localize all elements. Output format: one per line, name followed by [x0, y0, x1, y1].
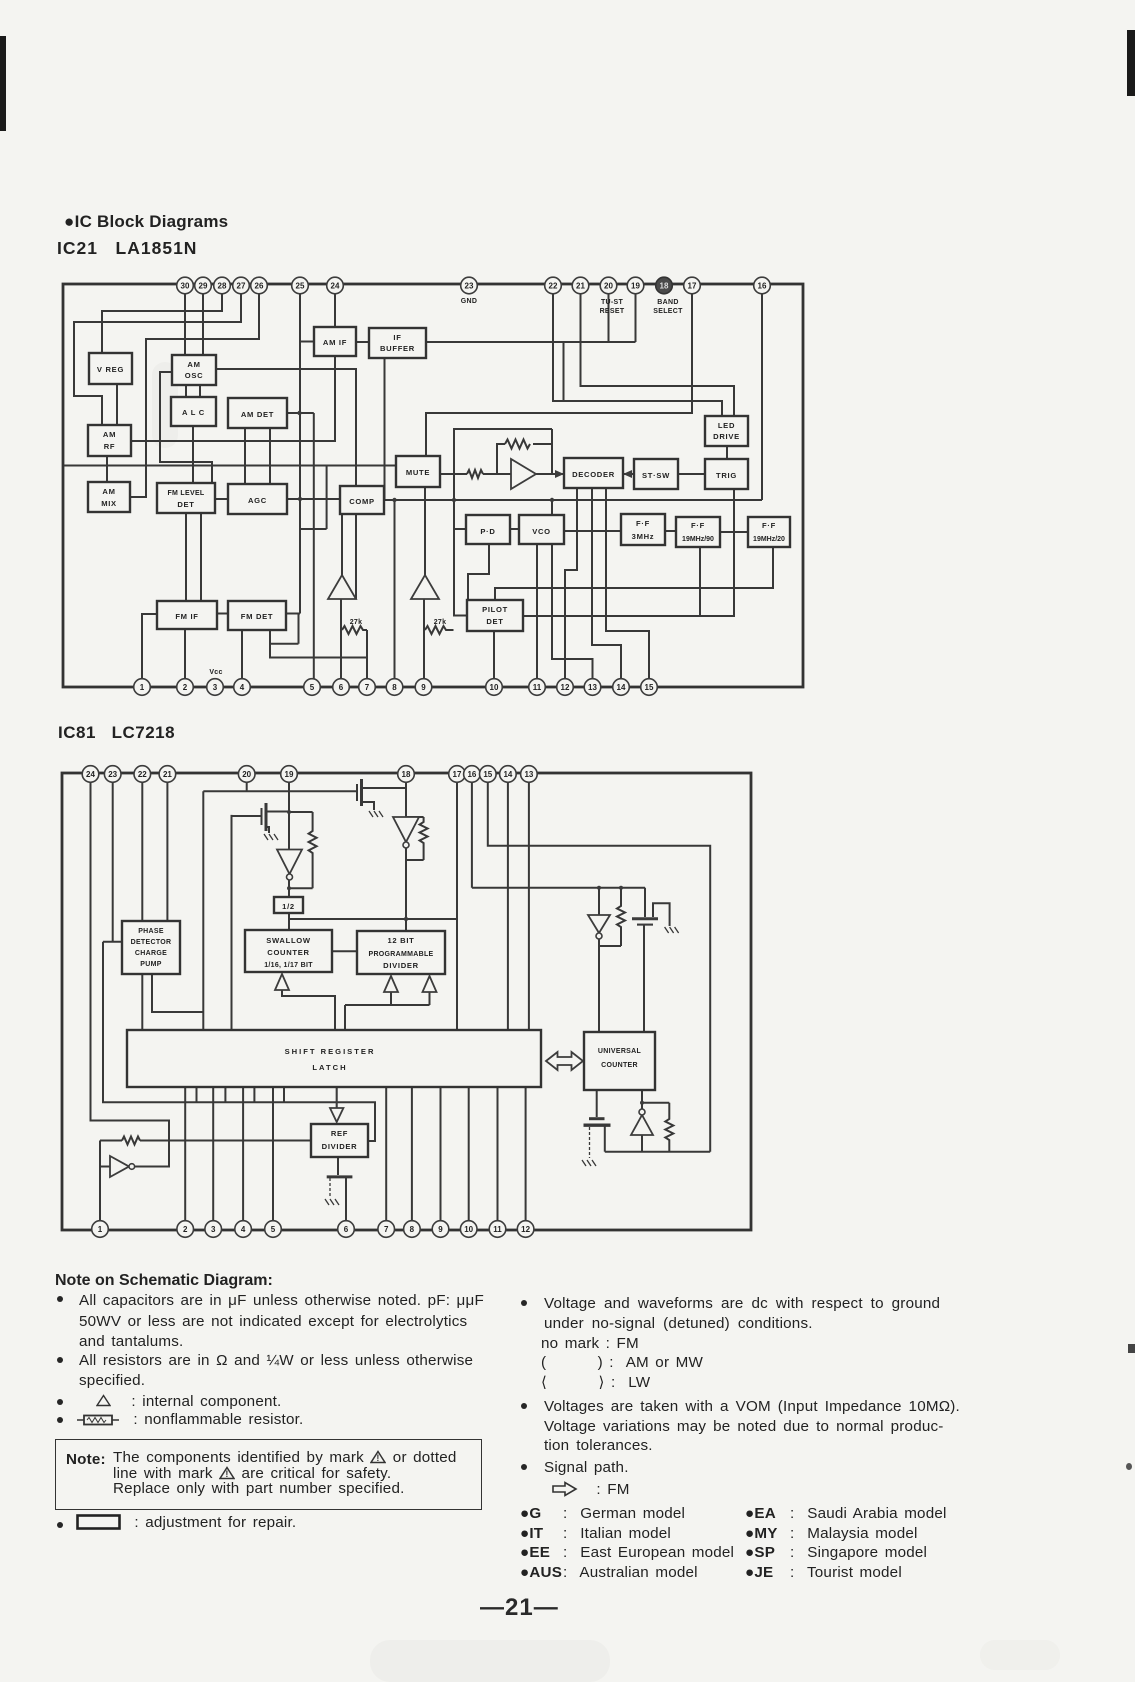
- svg-text:27: 27: [237, 282, 246, 291]
- svg-text:SELECT: SELECT: [653, 308, 683, 315]
- svg-text:!: !: [377, 1453, 380, 1463]
- svg-text:AM: AM: [187, 360, 200, 369]
- pin 27: [233, 277, 250, 294]
- block MUTE: [396, 456, 440, 487]
- pin 4: [235, 1221, 252, 1238]
- wire pin28 to V REG: [102, 292, 222, 353]
- transistor Q1: [262, 803, 290, 833]
- block 1/2 divider: [274, 897, 303, 913]
- svg-text:DRIVE: DRIVE: [713, 432, 740, 441]
- svg-text:AM DET: AM DET: [241, 410, 274, 419]
- svg-text:24: 24: [86, 770, 95, 779]
- svg-text:24: 24: [331, 282, 340, 291]
- pin 26: [251, 277, 268, 294]
- pin 3: [205, 1221, 222, 1238]
- pin 22: [545, 277, 562, 294]
- wire SR bottom links: [197, 1087, 285, 1102]
- svg-text:!: !: [225, 1469, 228, 1479]
- svg-text:TRIG: TRIG: [716, 471, 737, 480]
- wire FM IF to FM DET: [217, 613, 228, 615]
- block ST-SW: [634, 459, 678, 489]
- svg-text:27k: 27k: [350, 619, 363, 626]
- wire AM OSC to amp T1 node: [216, 369, 356, 599]
- crystal X1 under REF DIVIDER: [327, 1157, 353, 1229]
- svg-text:P·D: P·D: [480, 527, 495, 536]
- svg-text:19: 19: [285, 770, 294, 779]
- wire REF DIVIDER feedback to PHASE DETECTOR: [103, 942, 375, 1141]
- block 12 BIT PROGRAMMABLE DIVIDER: [357, 931, 445, 974]
- wire ALC to FM LEVEL DET: [192, 426, 194, 483]
- wire pin14 riser to SHIFT REGISTER: [507, 782, 509, 1030]
- svg-text:DECODER: DECODER: [572, 470, 615, 479]
- block AM DET: [228, 398, 287, 428]
- wire T2 to pin9: [423, 599, 425, 687]
- pin 6: [333, 679, 350, 696]
- block ALC: [171, 397, 216, 426]
- wire riser to PILOT DET left: [454, 500, 467, 616]
- wire Q1 gate line: [232, 815, 262, 817]
- pin 11: [529, 679, 546, 696]
- svg-text:27k: 27k: [434, 619, 447, 626]
- svg-text:AM: AM: [102, 487, 115, 496]
- svg-text:23: 23: [108, 770, 117, 779]
- svg-text:ST·SW: ST·SW: [642, 471, 670, 480]
- svg-text:14: 14: [503, 770, 512, 779]
- pin 20 TU-ST RESET: [600, 277, 625, 315]
- pin 25: [292, 277, 309, 294]
- block FM IF: [157, 601, 217, 629]
- pin 5: [304, 679, 321, 696]
- pin 18: [398, 766, 415, 783]
- inverter U5: [110, 1156, 135, 1177]
- pin 8: [404, 1221, 421, 1238]
- svg-text:RF: RF: [104, 442, 116, 451]
- pin 4: [234, 679, 251, 696]
- svg-text:8: 8: [410, 1225, 415, 1234]
- svg-text:2: 2: [183, 1225, 188, 1234]
- wire pin2 riser: [184, 1087, 186, 1229]
- pin 7: [378, 1221, 395, 1238]
- svg-text:AGC: AGC: [248, 496, 267, 505]
- block SWALLOW COUNTER: [245, 930, 332, 972]
- svg-text:SHIFT REGISTER: SHIFT REGISTER: [285, 1047, 376, 1056]
- svg-text:7: 7: [365, 683, 370, 692]
- wire COMP to amp T1: [341, 514, 343, 575]
- ground under Q2: [369, 811, 383, 817]
- resistor R1 27k: [342, 619, 367, 634]
- block AM MIX: [88, 482, 130, 512]
- block FF 19MHz/20: [748, 517, 790, 547]
- wire FF 3MHz to FF 19MHz/90: [665, 530, 676, 532]
- svg-text:3: 3: [211, 1225, 216, 1234]
- ground G4: [582, 1160, 596, 1166]
- wire pin1 line to REF DIVIDER with resistor R8: [100, 1137, 311, 1145]
- svg-text:BAND: BAND: [657, 299, 678, 306]
- block REF DIVIDER: [311, 1124, 368, 1157]
- arrow head A3 into DIVIDER: [423, 976, 437, 992]
- wire FM LEVEL DET to FM IF: [186, 513, 201, 601]
- block PILOT DET: [467, 600, 523, 631]
- block SHIFT REGISTER LATCH: [127, 1030, 541, 1087]
- svg-text:19: 19: [631, 282, 640, 291]
- block FF 19MHz/90: [676, 517, 720, 547]
- svg-text:9: 9: [421, 683, 426, 692]
- pin 7: [359, 679, 376, 696]
- arrow into DECODER: [555, 470, 564, 478]
- wire amp outer loop: [454, 429, 552, 500]
- wire UNIVERSAL COUNTER to C2: [596, 1090, 598, 1117]
- wire T1 to pin6: [340, 599, 342, 687]
- wire pin21 to PHASE DETECTOR: [166, 782, 168, 921]
- wire pin30 to AM OSC: [184, 292, 186, 355]
- wire MUTE to amp: [440, 473, 511, 475]
- wire pin27 to AM RF: [74, 292, 241, 425]
- ground under Q1: [264, 834, 278, 840]
- svg-text:13: 13: [524, 770, 533, 779]
- wire FM DET to node A: [286, 613, 300, 615]
- svg-text:LED: LED: [718, 421, 735, 430]
- svg-text:DET: DET: [486, 617, 503, 626]
- svg-text:3: 3: [213, 683, 218, 692]
- pin 2: [177, 679, 194, 696]
- wire node A to pin5: [313, 413, 315, 687]
- svg-text:18: 18: [660, 282, 669, 291]
- svg-text:18: 18: [402, 770, 411, 779]
- wire pin26 to AM MIX: [130, 292, 259, 497]
- resistor R2 27k: [425, 619, 454, 634]
- svg-text:8: 8: [392, 683, 397, 692]
- wire pin20 stem: [246, 782, 248, 791]
- wire arrows A2 A3 shafts and bus: [345, 991, 430, 1030]
- wire pin1 to FM IF: [142, 614, 157, 687]
- svg-text:AM IF: AM IF: [323, 338, 347, 347]
- wire AM IF to IF BUFFER: [356, 341, 369, 343]
- pin 23: [104, 766, 121, 783]
- svg-text:14: 14: [617, 683, 626, 692]
- wire resistor loop taps R5: [289, 812, 313, 888]
- pin 29: [195, 277, 212, 294]
- wire pin3 riser: [212, 1087, 214, 1229]
- svg-text:MUTE: MUTE: [406, 468, 430, 477]
- wire FF 19MHz/20 to PILOT DET: [495, 547, 773, 600]
- svg-text:Vcc: Vcc: [209, 669, 222, 676]
- svg-text:SWALLOW: SWALLOW: [266, 936, 311, 945]
- svg-text:GND: GND: [461, 298, 477, 305]
- wire C1 to ground: [653, 903, 670, 926]
- block AGC: [228, 484, 287, 514]
- svg-text:MIX: MIX: [101, 499, 117, 508]
- wire Q2 gate line: [203, 790, 357, 792]
- wire VCO to FF 3MHz: [564, 530, 621, 532]
- svg-text:30: 30: [181, 282, 190, 291]
- svg-text:1: 1: [98, 1225, 103, 1234]
- svg-text:DIVIDER: DIVIDER: [383, 961, 419, 970]
- svg-text:V REG: V REG: [97, 365, 124, 374]
- svg-text:6: 6: [339, 683, 344, 692]
- wire pin10 riser: [468, 1087, 470, 1229]
- block IF BUFFER: [369, 328, 426, 358]
- ground G5: [325, 1199, 339, 1205]
- resistor R7: [617, 888, 625, 946]
- block LED DRIVE: [705, 416, 748, 446]
- wire U6 loop tap: [642, 1102, 669, 1104]
- block VCO: [519, 515, 564, 544]
- wire U6 output: [641, 1135, 643, 1152]
- svg-text:RESET: RESET: [600, 308, 625, 315]
- wire pin17 to MUTE: [426, 292, 692, 456]
- resistor R9: [665, 1103, 673, 1152]
- wire resistor loop taps R6: [406, 817, 424, 860]
- wire AM DET to node A: [287, 412, 314, 414]
- wire AM DET to AGC: [245, 428, 270, 484]
- wire pin11 to VCO: [536, 544, 538, 687]
- wire PHASE DETECTOR output: [152, 974, 203, 1012]
- resistor R3: [467, 470, 483, 478]
- wire FM DET to pin7 node: [270, 629, 368, 658]
- pin 15: [641, 679, 658, 696]
- wire FM DET loop to output line: [270, 614, 299, 644]
- svg-text:COMP: COMP: [349, 497, 375, 506]
- pin 8: [386, 679, 403, 696]
- pin 12: [517, 1221, 534, 1238]
- wire ST-SW to TRIG: [678, 473, 705, 475]
- svg-text:17: 17: [688, 282, 697, 291]
- wire P-D to PILOT DET: [468, 544, 489, 600]
- svg-text:AM: AM: [103, 430, 116, 439]
- wire DECODER to pin15: [606, 488, 649, 687]
- wire node to pin13: [552, 500, 593, 687]
- block P-D: [466, 515, 510, 544]
- wire pin25 riser node A: [299, 292, 301, 614]
- wire riser x203 to SHIFT REGISTER: [202, 791, 204, 1030]
- wire pin12 riser: [525, 1087, 527, 1229]
- wire pin29 to AM OSC: [202, 292, 204, 355]
- wire border to MUTE input: [64, 465, 396, 467]
- wire AM OSC to ALC: [186, 385, 200, 397]
- svg-text:20: 20: [242, 770, 251, 779]
- wire V REG to AM RF: [116, 384, 118, 425]
- pin 10: [460, 1221, 477, 1238]
- capacitor C2: [584, 1119, 611, 1158]
- svg-text:1/2: 1/2: [282, 902, 295, 911]
- wire node to PHASE DETECTOR input: [103, 941, 122, 943]
- svg-text:LATCH: LATCH: [312, 1063, 347, 1072]
- amplifier T2: [411, 575, 439, 599]
- block AM IF: [314, 327, 356, 356]
- resistor R4: [505, 440, 530, 449]
- header: IC21 LA1851N: [57, 238, 197, 259]
- arrow head A2 into DIVIDER: [384, 976, 398, 992]
- svg-text:28: 28: [218, 282, 227, 291]
- wire pin25 riser to AM IF left: [300, 341, 314, 343]
- wire pin11 riser: [497, 1087, 499, 1229]
- svg-text:A L C: A L C: [182, 408, 205, 417]
- pin 6: [338, 1221, 355, 1238]
- svg-text:13: 13: [588, 683, 597, 692]
- svg-text:21: 21: [576, 282, 585, 291]
- pin 28: [214, 277, 231, 294]
- wire pin20 stem: [608, 292, 610, 342]
- inverter U4: [588, 915, 610, 939]
- wire SWALLOW COUNTER to DIVIDER: [332, 950, 357, 952]
- pin 24: [327, 277, 344, 294]
- pin 16: [754, 277, 771, 294]
- wire bottom bus: [605, 1151, 710, 1153]
- wire pin9 riser: [440, 1087, 442, 1229]
- op-amp U1: [511, 459, 536, 489]
- wire link x563: [563, 342, 565, 401]
- wire pin15 to bottom bus: [488, 782, 710, 1152]
- wire pin4 to FM DET: [241, 630, 243, 687]
- block TRIG: [705, 459, 748, 489]
- pin 10: [486, 679, 503, 696]
- wire IF BUFFER down to long line: [384, 358, 386, 500]
- IC81 outer border: [62, 773, 751, 1230]
- wire pin2 to FM IF: [184, 629, 186, 687]
- wire pin17 riser to SHIFT REGISTER: [456, 782, 458, 1030]
- block FF 3MHz: [621, 514, 665, 545]
- svg-text:22: 22: [549, 282, 558, 291]
- pin 1: [92, 1221, 109, 1238]
- junction dots: [287, 810, 644, 1105]
- block V REG: [89, 353, 132, 384]
- wire P-D to VCO: [510, 528, 519, 530]
- wire divider bus y919: [289, 918, 457, 920]
- block AM OSC: [172, 355, 216, 385]
- svg-text:F·F: F·F: [636, 519, 650, 528]
- wire DECODER to pin14: [592, 488, 621, 687]
- wire pin18 to inverter U3: [405, 782, 407, 931]
- svg-text:19MHz/90: 19MHz/90: [682, 536, 714, 543]
- arrow head A1 into SWALLOW COUNTER: [275, 974, 289, 990]
- scan shading artifacts: [370, 1640, 610, 1682]
- pin 20: [238, 766, 255, 783]
- svg-text:DIVIDER: DIVIDER: [322, 1142, 358, 1151]
- svg-text:15: 15: [645, 683, 654, 692]
- wire LED DRIVE to TRIG: [726, 446, 728, 459]
- svg-text:9: 9: [438, 1225, 443, 1234]
- block FM DET: [228, 601, 286, 630]
- svg-text:19MHz/20: 19MHz/20: [753, 536, 785, 543]
- pin 22: [134, 766, 151, 783]
- wire AM OSC left to FM LEVEL DET: [160, 372, 212, 483]
- wire pin19 to inverter chain: [288, 782, 290, 930]
- svg-text:11: 11: [533, 683, 542, 692]
- svg-text:FM LEVEL: FM LEVEL: [167, 490, 204, 497]
- block COMP: [340, 486, 384, 514]
- pin 16: [464, 766, 481, 783]
- pin 19: [627, 277, 644, 294]
- wire to P-D left: [454, 528, 466, 530]
- block UNIVERSAL COUNTER: [584, 1032, 655, 1090]
- block AM RF: [88, 425, 131, 456]
- svg-text:3MHz: 3MHz: [632, 532, 655, 541]
- svg-text:FM IF: FM IF: [175, 612, 198, 621]
- inverter U3: [393, 817, 419, 848]
- svg-text:26: 26: [255, 282, 264, 291]
- wire UNIVERSAL COUNTER to inverter U6: [641, 1090, 643, 1109]
- wire amp to DECODER: [536, 473, 564, 475]
- pin 19: [281, 766, 298, 783]
- wire arrow A1 shaft and bus: [282, 989, 335, 1030]
- pin 14: [500, 766, 517, 783]
- svg-text:F·F: F·F: [762, 521, 776, 530]
- svg-text:DET: DET: [177, 500, 194, 509]
- pin 13: [584, 679, 601, 696]
- wire pin16 bus: [472, 782, 645, 888]
- svg-text:2: 2: [183, 683, 188, 692]
- pin 14: [613, 679, 630, 696]
- right column notes: [521, 1300, 527, 1306]
- wire pin23 riser: [112, 782, 114, 942]
- note warning box: [55, 1439, 482, 1510]
- pin 5: [265, 1221, 282, 1238]
- resistor R5: [309, 812, 317, 888]
- svg-text:20: 20: [604, 282, 613, 291]
- inverter U2: [277, 850, 302, 881]
- block PHASE DETECTOR CHARGE PUMP: [122, 921, 180, 974]
- wire FM LEVEL DET to AGC: [215, 498, 228, 500]
- svg-text:DETECTOR: DETECTOR: [131, 939, 172, 946]
- model list: [520, 1504, 562, 1582]
- pin 15: [480, 766, 497, 783]
- svg-text:5: 5: [271, 1225, 276, 1234]
- svg-text:UNIVERSAL: UNIVERSAL: [598, 1048, 642, 1055]
- wire AGC to COMP: [287, 498, 340, 500]
- pin 21: [159, 766, 176, 783]
- wire inverter U5 output: [135, 1166, 170, 1168]
- wire pin24 riser to inverter loop: [91, 782, 170, 1167]
- svg-text:12: 12: [561, 683, 570, 692]
- svg-text:25: 25: [296, 282, 305, 291]
- svg-text:12 BIT: 12 BIT: [388, 936, 415, 945]
- svg-text:PUMP: PUMP: [140, 961, 161, 968]
- header: IC Block Diagrams: [64, 212, 228, 232]
- ground G3: [665, 927, 679, 933]
- wire pin7 riser: [385, 1087, 387, 1229]
- pin 12: [557, 679, 574, 696]
- wire IF BUFFER to pin19: [426, 292, 636, 342]
- wire pin22 riser to SHIFT REGISTER: [141, 782, 143, 1030]
- pin 30: [177, 277, 194, 294]
- pin 9: [415, 679, 432, 696]
- double arrow A5 SHIFT REGISTER to UNIVERSAL COUNTER: [546, 1052, 583, 1070]
- amplifier T1: [328, 575, 356, 599]
- wire ST-SW to DECODER: [623, 473, 634, 475]
- svg-text:16: 16: [467, 770, 476, 779]
- svg-text:16: 16: [758, 282, 767, 291]
- svg-text:CHARGE: CHARGE: [135, 950, 167, 957]
- wire DECODER to pin12: [565, 488, 577, 687]
- svg-text:BUFFER: BUFFER: [380, 344, 415, 353]
- pin 13: [521, 766, 538, 783]
- svg-text:21: 21: [163, 770, 172, 779]
- pin 23 GND: [461, 277, 478, 305]
- svg-text:11: 11: [493, 1225, 502, 1234]
- page number: [480, 1594, 559, 1622]
- pin 17: [684, 277, 701, 294]
- svg-text:PILOT: PILOT: [482, 605, 508, 614]
- block FM LEVEL DET: [157, 483, 215, 513]
- svg-text:REF: REF: [331, 1129, 348, 1138]
- wire PILOT DET to TRIG: [523, 489, 734, 616]
- pin 9: [432, 1221, 449, 1238]
- pin 1: [134, 679, 151, 696]
- svg-text:OSC: OSC: [185, 371, 204, 380]
- block DECODER: [564, 458, 623, 488]
- wire pin22 to LED DRIVE: [553, 292, 722, 416]
- wire riser x231 to SHIFT REGISTER: [231, 815, 233, 1030]
